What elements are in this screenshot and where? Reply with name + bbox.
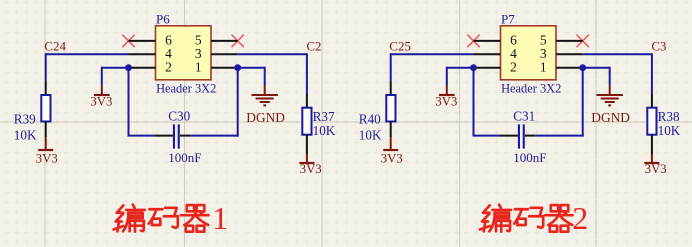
svg-text:3V3: 3V3 xyxy=(36,152,58,166)
svg-text:1: 1 xyxy=(212,200,228,236)
svg-text:3V3: 3V3 xyxy=(435,95,457,109)
svg-text:10K: 10K xyxy=(359,128,382,143)
svg-text:3V3: 3V3 xyxy=(90,95,112,109)
svg-text:2: 2 xyxy=(572,200,588,236)
svg-text:DGND: DGND xyxy=(246,110,285,125)
svg-text:P6: P6 xyxy=(156,11,170,26)
svg-text:3V3: 3V3 xyxy=(645,162,667,176)
svg-text:C24: C24 xyxy=(44,38,66,53)
svg-text:C30: C30 xyxy=(168,108,190,123)
svg-text:3V3: 3V3 xyxy=(300,162,322,176)
svg-text:2: 2 xyxy=(165,59,172,74)
svg-text:R37: R37 xyxy=(313,109,335,124)
svg-text:Header 3X2: Header 3X2 xyxy=(156,82,216,96)
svg-text:10K: 10K xyxy=(658,123,681,138)
svg-text:C2: C2 xyxy=(307,39,322,53)
svg-text:1: 1 xyxy=(195,59,202,74)
svg-text:3V3: 3V3 xyxy=(381,152,403,166)
svg-text:10K: 10K xyxy=(14,128,37,143)
svg-text:C3: C3 xyxy=(652,39,667,53)
svg-text:R38: R38 xyxy=(658,109,680,124)
svg-text:2: 2 xyxy=(510,59,517,74)
svg-text:P7: P7 xyxy=(501,11,515,26)
svg-text:1: 1 xyxy=(540,59,547,74)
svg-text:10K: 10K xyxy=(313,123,336,138)
svg-text:100nF: 100nF xyxy=(168,150,201,165)
svg-text:100nF: 100nF xyxy=(513,150,546,165)
svg-text:C25: C25 xyxy=(389,38,411,53)
svg-text:DGND: DGND xyxy=(591,110,630,125)
svg-text:C31: C31 xyxy=(513,108,535,123)
svg-text:R39: R39 xyxy=(14,111,36,126)
svg-text:Header 3X2: Header 3X2 xyxy=(501,82,561,96)
svg-text:R40: R40 xyxy=(359,111,381,126)
